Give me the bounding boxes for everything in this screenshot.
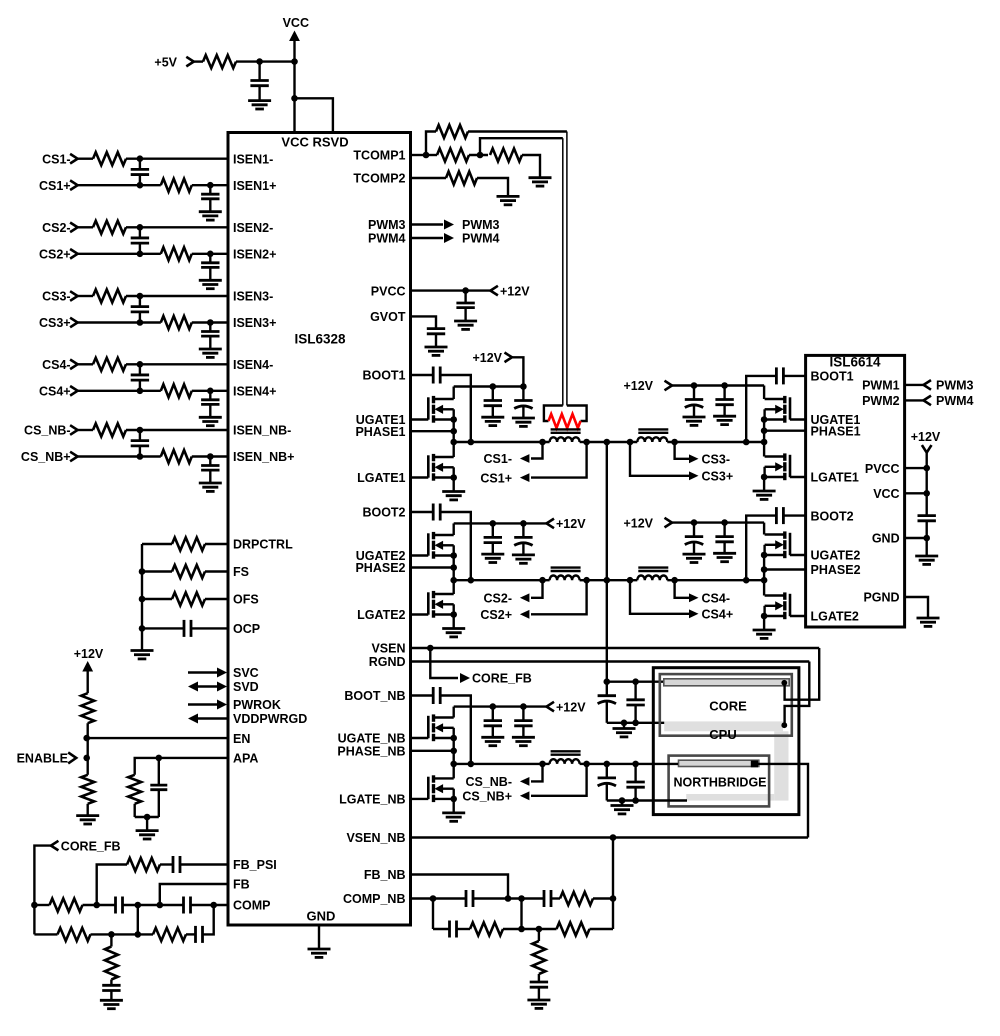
junction	[450, 748, 457, 755]
svg-text:+12V: +12V	[623, 516, 653, 530]
ground	[527, 999, 550, 1002]
capacitor C VCORE bulk (pol)	[606, 682, 608, 696]
junction	[430, 895, 437, 902]
capacitor C CS1+ filter	[209, 185, 211, 194]
svg-text:PWM4: PWM4	[368, 232, 406, 246]
resistor R comp4	[153, 928, 186, 941]
transistor Q high-side phase4	[790, 554, 806, 556]
junction	[450, 416, 457, 423]
resistor R FS	[142, 570, 172, 572]
capacitor C CS3+ filter	[209, 323, 211, 332]
transistor Q low-side phase4	[790, 615, 806, 617]
wire +12V vertical	[926, 453, 928, 516]
junction	[144, 814, 151, 821]
CORE box	[660, 674, 792, 736]
svg-text:PWM4: PWM4	[936, 394, 974, 408]
wire TCOMP1	[411, 154, 427, 156]
transistor Q low-side phase1	[411, 476, 429, 478]
svg-text:PWROK: PWROK	[233, 698, 281, 712]
NB VCC bar	[679, 760, 759, 766]
svg-text:OCP: OCP	[233, 622, 260, 636]
svg-text:ISEN2+: ISEN2+	[233, 248, 276, 262]
junction	[468, 761, 475, 768]
node CS3+ sense	[630, 442, 689, 476]
svg-text:ISEN2-: ISEN2-	[233, 221, 273, 235]
wire FB_PSI	[97, 865, 127, 906]
gray column	[774, 731, 788, 800]
resistor R EN upper	[81, 693, 94, 723]
junction	[468, 439, 475, 446]
svg-text:CS1+: CS1+	[480, 471, 512, 485]
capacitor C bulk2 phase3	[723, 386, 725, 400]
wire phase node phase4	[587, 579, 638, 581]
wire phase phase4	[764, 568, 806, 570]
ground	[76, 814, 99, 817]
svg-text:FB_NB: FB_NB	[364, 868, 406, 882]
op-amp U2 ISL6614 body	[806, 355, 905, 627]
svg-text:CS3-: CS3-	[702, 453, 730, 467]
junction	[427, 645, 434, 652]
svg-text:CS2+: CS2+	[480, 608, 512, 622]
wire GND (U2)	[905, 537, 927, 539]
junction	[761, 416, 768, 423]
ground	[713, 552, 736, 555]
svg-text:VCC: VCC	[283, 16, 309, 30]
thermistor RT1 (NTC)	[549, 414, 581, 428]
resistor R APA	[128, 775, 141, 804]
node CS2+ sense	[531, 580, 587, 614]
junction	[781, 680, 787, 686]
wire +12V rail phaseNB	[454, 705, 547, 707]
wire VSEN sense loop	[785, 648, 820, 700]
resistor R EN lower	[81, 775, 94, 804]
svg-text:LGATE_NB: LGATE_NB	[339, 793, 405, 807]
svg-text:PWM1: PWM1	[862, 379, 900, 393]
ground	[753, 629, 776, 632]
wire	[763, 616, 765, 630]
svg-text:SVC: SVC	[233, 666, 259, 680]
junction	[137, 224, 144, 231]
capacitor C bulk2 phase2 (pol)	[522, 523, 524, 537]
svg-text:CORE_FB: CORE_FB	[472, 672, 532, 686]
svg-text:ISEN1-: ISEN1-	[233, 152, 273, 166]
svg-text:CS1-: CS1-	[42, 152, 70, 166]
ground (U1 GND)	[318, 925, 320, 949]
svg-text:PWM3: PWM3	[368, 218, 406, 232]
node CS3- sense	[675, 442, 689, 459]
svg-text:UGATE2: UGATE2	[811, 549, 861, 563]
node CORE_FB input	[34, 846, 51, 905]
wire	[612, 899, 614, 930]
svg-text:COMP: COMP	[233, 899, 271, 913]
ground	[131, 649, 154, 652]
op-amp U1 ISL6328 body	[228, 133, 411, 926]
junction	[137, 251, 144, 258]
node +12V (PVCC)	[490, 286, 498, 296]
resistor R TCOMP1 top	[426, 132, 436, 156]
signal PWM3 output	[411, 223, 444, 225]
junction	[604, 761, 611, 768]
capacitor C OCP	[142, 627, 184, 629]
ground	[442, 490, 465, 493]
transistor Q low-side phaseNB	[411, 798, 429, 800]
junction	[450, 577, 457, 584]
node +12V (phase2)	[547, 519, 555, 529]
junction	[135, 902, 142, 909]
wire	[453, 799, 455, 813]
wire CS2+	[78, 253, 161, 255]
wire VNB return	[607, 799, 687, 801]
junction	[781, 722, 787, 728]
junction node VCC pin	[291, 58, 298, 65]
ground	[199, 482, 222, 485]
svg-text:CS3+: CS3+	[39, 316, 71, 330]
junction	[743, 577, 750, 584]
capacitor C comp1	[114, 897, 117, 914]
junction	[93, 902, 100, 909]
capacitor C comp NB2	[522, 897, 545, 899]
capacitor C VCORE bulk2	[634, 682, 636, 700]
capacitor C CS3 filter	[139, 296, 141, 307]
junction	[207, 319, 214, 326]
wire +12V rail phase3	[672, 384, 764, 386]
resistor R CS1+	[161, 179, 192, 192]
svg-text:RGND: RGND	[369, 655, 406, 669]
capacitor C bulk1 phaseNB	[492, 707, 494, 721]
junction	[923, 465, 930, 472]
capacitor C boot phase2	[411, 511, 434, 513]
transistor Q low-side phase2	[411, 613, 429, 615]
svg-text:EN: EN	[233, 732, 250, 746]
svg-text:CS4+: CS4+	[39, 385, 71, 399]
capacitor C VNB bulk2	[634, 764, 636, 782]
svg-text:CS2-: CS2-	[484, 592, 512, 606]
wire	[453, 478, 455, 492]
wire COMP_NB	[411, 897, 467, 899]
node +12V (phaseNB)	[547, 702, 555, 712]
svg-text:CS4-: CS4-	[42, 358, 70, 372]
junction	[137, 427, 144, 434]
svg-text:LGATE2: LGATE2	[811, 610, 859, 624]
resistor R DRPCTRL	[142, 543, 172, 545]
junction	[604, 439, 611, 446]
inductor L phase3	[637, 437, 667, 442]
svg-text:GVOT: GVOT	[370, 310, 406, 324]
junction	[691, 519, 698, 526]
ground	[512, 417, 535, 420]
wire GVOT	[411, 316, 437, 328]
capacitor C bulk2 phase4	[723, 523, 725, 537]
node CS2- sense	[531, 580, 543, 598]
svg-text:CS4+: CS4+	[702, 608, 734, 622]
junction	[604, 678, 611, 685]
svg-text:ISL6614: ISL6614	[829, 355, 881, 370]
wire drain	[763, 523, 765, 535]
capacitor C boot phase4	[783, 514, 805, 516]
svg-text:CS_NB+: CS_NB+	[462, 790, 512, 804]
svg-text:FS: FS	[233, 565, 249, 579]
wire phase phase2	[411, 566, 454, 568]
svg-text:COMP_NB: COMP_NB	[343, 892, 406, 906]
svg-text:PWM3: PWM3	[936, 379, 974, 393]
svg-text:+12V: +12V	[500, 284, 530, 298]
junction	[450, 552, 457, 559]
inductor L phaseNB	[550, 759, 580, 764]
resistor R CS4+	[161, 384, 192, 397]
wire	[520, 899, 522, 930]
svg-text:VSEN: VSEN	[371, 642, 405, 656]
junction	[450, 735, 457, 742]
junction	[137, 319, 144, 326]
resistor R TCOMP1 mid	[426, 154, 437, 156]
wire phase phase3	[764, 430, 806, 432]
signal PWM4 output	[411, 237, 444, 239]
wire RSVD jog	[295, 98, 333, 132]
junction	[156, 755, 163, 762]
svg-text:CS3-: CS3-	[42, 290, 70, 304]
junction	[137, 182, 144, 189]
junction	[627, 439, 634, 446]
capacitor C CS1 filter	[139, 159, 141, 170]
svg-text:+12V: +12V	[556, 700, 586, 714]
resistor R CS3-	[78, 295, 93, 297]
capacitor C CS2 filter	[139, 227, 141, 238]
junction	[137, 361, 144, 368]
wire comp NB row2	[432, 899, 434, 930]
wire EN	[88, 737, 228, 739]
wire	[137, 905, 139, 934]
junction	[207, 453, 214, 460]
junction	[923, 490, 930, 497]
junction	[462, 287, 469, 294]
svg-text:TCOMP2: TCOMP2	[353, 172, 405, 186]
signal SVC arrow	[188, 671, 217, 673]
junction	[761, 439, 768, 446]
svg-text:SVD: SVD	[233, 680, 259, 694]
capacitor C comp NB1	[465, 890, 468, 907]
capacitor C comp NB3	[448, 921, 451, 938]
svg-text:BOOT2: BOOT2	[811, 509, 854, 523]
wire CS1+	[78, 184, 161, 186]
svg-text:CS3+: CS3+	[702, 470, 734, 484]
ground	[497, 195, 520, 198]
resistor R comp3	[58, 928, 91, 941]
wire phase node phaseNB	[454, 763, 550, 765]
svg-text:LGATE2: LGATE2	[357, 608, 405, 622]
inductor L phase4	[637, 576, 667, 581]
svg-text:PVCC: PVCC	[865, 462, 900, 476]
svg-text:VCC RSVD: VCC RSVD	[281, 135, 348, 150]
resistor R CS_NB-	[78, 429, 93, 431]
wire	[763, 580, 765, 595]
resistor R OFS	[142, 598, 172, 600]
svg-text:VDDPWRGD: VDDPWRGD	[233, 712, 307, 726]
junction	[450, 474, 457, 481]
svg-text:ISEN3+: ISEN3+	[233, 316, 276, 330]
junction	[477, 152, 484, 159]
junction	[604, 577, 611, 584]
junction	[139, 568, 146, 575]
wire phase node phase2	[454, 579, 550, 581]
wire thermistor box	[544, 406, 563, 422]
ground	[917, 617, 940, 620]
junction	[137, 453, 144, 460]
svg-text:BOOT1: BOOT1	[362, 369, 405, 383]
ground	[454, 320, 477, 323]
wire	[763, 442, 765, 457]
junction	[83, 755, 90, 762]
capacitor C comp3	[194, 926, 197, 943]
resistor R CS2-	[78, 226, 93, 228]
ground	[199, 279, 222, 282]
capacitor C bulk1 phase1	[492, 387, 494, 401]
svg-text:ISEN4-: ISEN4-	[233, 358, 273, 372]
junction	[539, 577, 546, 584]
junction	[761, 566, 768, 573]
junction	[761, 552, 768, 559]
junction	[536, 926, 543, 933]
wire FB	[160, 884, 228, 905]
capacitor C VCC (U2)	[918, 514, 936, 517]
junction	[619, 797, 626, 804]
capacitor C boot phase3	[783, 375, 805, 377]
junction	[627, 577, 634, 584]
ground	[100, 999, 123, 1002]
svg-text:+12V: +12V	[472, 351, 502, 365]
NB VSS bar	[686, 794, 774, 801]
resistor R CS3+	[161, 316, 192, 329]
svg-text:APA: APA	[233, 752, 258, 766]
resistor R FB_PSI	[127, 858, 160, 871]
capacitor C CS4+ filter	[209, 391, 211, 400]
svg-text:PWM2: PWM2	[862, 394, 900, 408]
capacitor C bulk1 phase4 (pol)	[693, 523, 695, 537]
ground	[713, 415, 736, 418]
capacitor C bulk2 phase1 (pol)	[522, 387, 524, 401]
junction	[610, 895, 617, 902]
node CS4+ sense	[630, 580, 689, 614]
resistor R CS2+	[161, 247, 192, 260]
wire bias rail	[141, 544, 143, 651]
svg-text:LGATE1: LGATE1	[357, 471, 405, 485]
wire +12V rail phase1	[454, 385, 524, 387]
capacitor C boot phaseNB	[411, 694, 434, 696]
transistor Q low-side phase3	[790, 476, 806, 478]
resistor R CS4-	[78, 363, 93, 365]
svg-text:CS2-: CS2-	[42, 221, 70, 235]
capacitor C CS2+ filter	[209, 254, 211, 263]
wire VSEN	[411, 647, 820, 649]
junction	[157, 902, 164, 909]
ground	[146, 817, 148, 831]
transistor Q high-side phase1	[411, 418, 429, 420]
signal CORE_FB output	[430, 648, 458, 678]
junction	[450, 439, 457, 446]
resistor R comp gnd	[110, 934, 112, 946]
wire +12V rail phase2	[454, 522, 547, 524]
wire PGND (U2)	[905, 597, 928, 618]
svg-text:GND: GND	[872, 532, 900, 546]
svg-text:CPU: CPU	[709, 727, 736, 742]
wire VCORE return	[607, 722, 666, 724]
CORE VSS bar	[664, 721, 783, 731]
ground	[529, 176, 552, 179]
junction	[621, 720, 628, 727]
junction	[207, 182, 214, 189]
svg-text:CORE: CORE	[709, 699, 747, 714]
svg-text:+12V: +12V	[911, 430, 941, 444]
wire	[86, 723, 88, 775]
svg-text:ISEN_NB-: ISEN_NB-	[233, 424, 291, 438]
svg-text:FB: FB	[233, 878, 250, 892]
wire thermistor sense inner	[480, 138, 563, 155]
wire +12V rail phase4	[672, 521, 764, 523]
svg-text:TCOMP1: TCOMP1	[353, 149, 405, 163]
junction	[139, 625, 146, 632]
junction	[210, 902, 217, 909]
junction	[761, 427, 768, 434]
resistor R TCOMP2	[411, 177, 447, 179]
capacitor C CS_NB filter	[139, 430, 141, 441]
wire	[453, 764, 455, 779]
capacitor C VNB bulk (pol)	[606, 764, 608, 778]
svg-text:ISEN_NB+: ISEN_NB+	[233, 450, 294, 464]
node CS_NB+ sense	[531, 764, 587, 796]
node CS1- sense	[531, 442, 543, 459]
junction	[423, 152, 430, 159]
wire	[453, 615, 455, 629]
junction	[137, 388, 144, 395]
signal SVD arrow	[188, 682, 198, 692]
svg-text:PHASE1: PHASE1	[355, 425, 405, 439]
wire phase phaseNB	[411, 750, 454, 752]
node CS1+ sense	[531, 442, 587, 478]
svg-text:+12V: +12V	[74, 647, 104, 661]
wire	[763, 477, 765, 491]
ground	[623, 723, 625, 729]
svg-text:VCC: VCC	[873, 487, 899, 501]
capacitor C CS4 filter	[139, 364, 141, 375]
signal PWROK arrow	[188, 703, 217, 705]
wire PVCC	[411, 289, 491, 291]
junction	[539, 761, 546, 768]
node CS_NB- sense	[531, 764, 543, 782]
inductor L phase1	[550, 437, 580, 442]
wire CS_NB+	[78, 455, 161, 457]
svg-text:PGND: PGND	[863, 591, 899, 605]
junction	[518, 895, 525, 902]
svg-text:CS_NB-: CS_NB-	[465, 775, 512, 789]
resistor R comp1	[50, 899, 83, 912]
resistor R comp NB2	[470, 923, 503, 936]
wire RGND	[411, 660, 810, 662]
svg-text:+12V: +12V	[556, 517, 586, 531]
svg-text:CS_NB-: CS_NB-	[24, 424, 71, 438]
capacitor C bulk1 phase3 (pol)	[693, 386, 695, 400]
svg-text:PWM3: PWM3	[462, 218, 500, 232]
capacitor C FB_PSI	[172, 856, 175, 873]
svg-text:PHASE1: PHASE1	[811, 424, 861, 438]
junction	[539, 439, 546, 446]
wire VCC (U2)	[905, 492, 927, 494]
svg-text:CS4-: CS4-	[702, 592, 730, 606]
svg-text:ISEN4+: ISEN4+	[233, 385, 276, 399]
wire phase node phase1	[454, 441, 550, 443]
transistor Q high-side phase2	[411, 554, 429, 556]
junction	[139, 596, 146, 603]
ground	[199, 210, 222, 213]
junction	[691, 382, 698, 389]
